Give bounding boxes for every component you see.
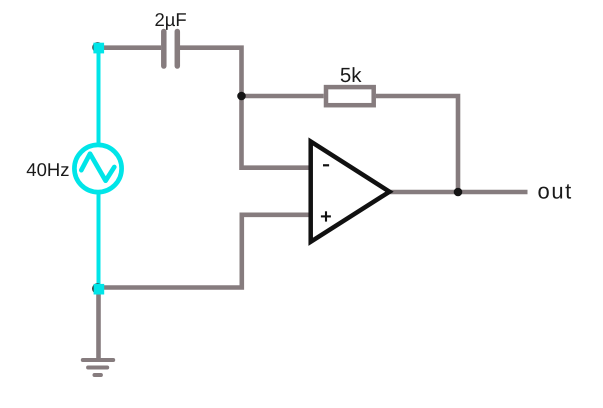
svg-text:5k: 5k: [340, 64, 362, 87]
svg-text:40Hz: 40Hz: [26, 159, 69, 180]
svg-text:2µF: 2µF: [154, 9, 186, 30]
svg-text:out: out: [538, 178, 573, 203]
